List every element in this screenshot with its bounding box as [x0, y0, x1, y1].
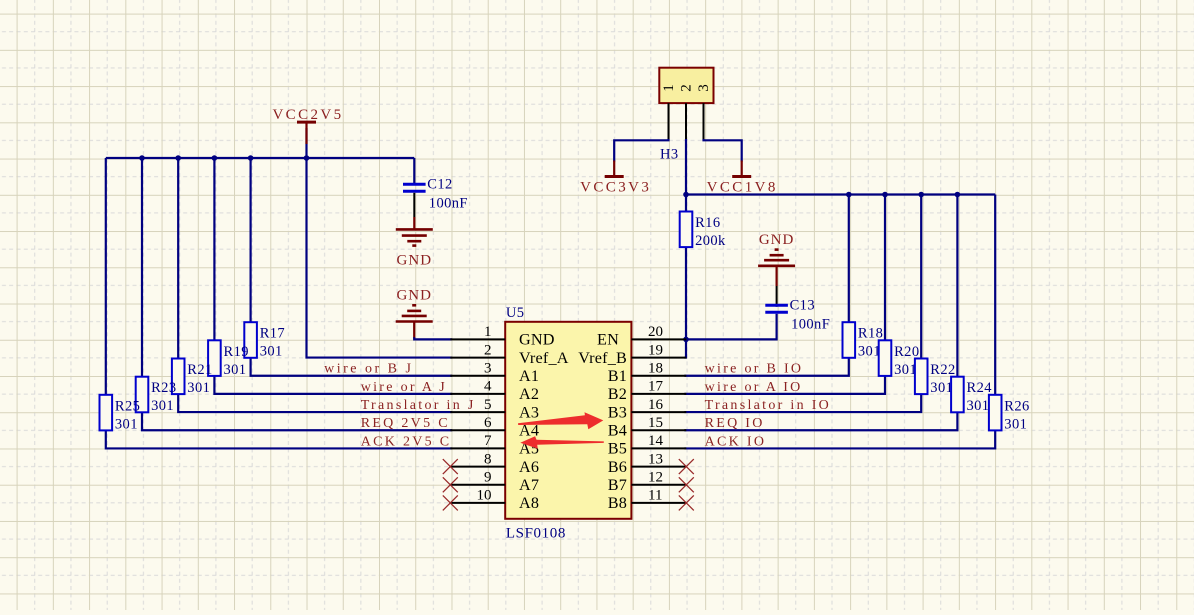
junction VCC2V5/bus [304, 155, 310, 161]
resistor R19 [208, 340, 249, 378]
pin 14 (B5) [608, 433, 687, 457]
svg-text:Vref_A: Vref_A [519, 349, 569, 367]
connector H3 [659, 68, 713, 103]
svg-text:Vref_B: Vref_B [578, 349, 627, 367]
svg-text:VCC3V3: VCC3V3 [580, 180, 651, 196]
resistor R24 [951, 377, 992, 415]
resistor R18 [843, 322, 884, 360]
pin 5 (A3) [450, 397, 539, 421]
pin 20 (EN) [597, 324, 686, 348]
pin 12 (B7) [608, 470, 687, 494]
svg-text:R23: R23 [151, 380, 176, 396]
pin 1 (GND) [450, 324, 554, 348]
svg-text:B2: B2 [608, 385, 627, 403]
svg-text:B4: B4 [608, 421, 627, 439]
svg-text:EN: EN [597, 331, 619, 349]
svg-text:A2: A2 [519, 385, 539, 403]
capacitor C13 [765, 297, 830, 332]
capacitor C12 [403, 176, 468, 211]
junction rail/R18 [846, 192, 852, 198]
svg-text:100nF: 100nF [429, 195, 468, 211]
svg-text:C13: C13 [790, 297, 815, 313]
svg-text:REQ 2V5 C: REQ 2V5 C [361, 416, 450, 431]
svg-text:12: 12 [648, 470, 663, 486]
pin 2 (Vref_A) [450, 342, 568, 366]
junction bus/R23 [139, 155, 145, 161]
resistor R23 [136, 377, 177, 415]
svg-text:7: 7 [484, 433, 492, 449]
wire R22 net pin 16 [684, 195, 921, 413]
svg-text:17: 17 [648, 379, 664, 395]
svg-text:wire or B J: wire or B J [324, 362, 413, 377]
svg-text:15: 15 [648, 415, 663, 431]
svg-text:13: 13 [648, 451, 663, 467]
ground GND to pin 1 [396, 288, 433, 322]
svg-text:6: 6 [484, 415, 492, 431]
svg-text:8: 8 [484, 451, 492, 467]
svg-text:B7: B7 [608, 476, 627, 494]
wire pull-up rail [686, 193, 995, 195]
svg-text:R22: R22 [930, 362, 955, 378]
wire GND to pin 1 [413, 322, 415, 339]
wire VCC2V5 bus [106, 157, 415, 159]
resistor R17 [244, 322, 285, 360]
power port VCC2V5 [272, 107, 343, 144]
pin 10 (A8) [450, 488, 539, 512]
svg-text:2: 2 [484, 342, 492, 358]
svg-text:LSF0108: LSF0108 [506, 526, 566, 542]
svg-text:R20: R20 [894, 344, 919, 360]
pin H3.2 [685, 103, 687, 140]
svg-text:R26: R26 [1004, 398, 1029, 414]
svg-text:GND: GND [759, 232, 795, 248]
svg-text:VCC2V5: VCC2V5 [272, 107, 343, 123]
wire EN to Vref_B pin 19 [684, 339, 686, 357]
wire net to pin 6 [142, 158, 452, 430]
op-amp U5 LSF0108 body [505, 322, 631, 519]
ground GND below C12 [396, 229, 433, 268]
wire R20 net pin 17 [684, 195, 885, 394]
pin 3 (A1) [450, 361, 539, 385]
svg-text:5: 5 [484, 397, 492, 413]
svg-text:4: 4 [484, 379, 492, 395]
svg-text:REQ IO: REQ IO [705, 416, 765, 431]
junction rail/R22 [918, 192, 924, 198]
svg-text:GND: GND [397, 252, 433, 268]
wire EN to C13 [686, 314, 777, 340]
svg-text:301: 301 [187, 380, 210, 396]
no-connect X pin 13 [679, 459, 694, 474]
no-connect X pin 10 [443, 495, 458, 510]
svg-text:B3: B3 [608, 403, 627, 421]
svg-text:VCC1V8: VCC1V8 [707, 180, 778, 196]
wire net to pin 3 [251, 158, 453, 376]
svg-text:3: 3 [484, 361, 492, 377]
svg-text:R19: R19 [224, 344, 249, 360]
svg-text:200k: 200k [695, 233, 726, 249]
svg-text:wire or A J: wire or A J [361, 380, 447, 395]
svg-text:B1: B1 [608, 367, 627, 385]
junction H3.2/VCC1V8 rail [683, 192, 689, 198]
svg-text:20: 20 [648, 324, 663, 340]
junction rail/R24 [955, 192, 961, 198]
svg-text:301: 301 [151, 398, 174, 414]
svg-text:301: 301 [967, 398, 990, 414]
svg-text:B6: B6 [608, 458, 627, 476]
svg-text:GND: GND [396, 288, 432, 304]
svg-text:100nF: 100nF [791, 316, 830, 332]
resistor R16 [680, 212, 726, 250]
pin 4 (A2) [450, 379, 539, 403]
junction bus/R17 [248, 155, 254, 161]
svg-text:R16: R16 [695, 215, 720, 231]
svg-text:A6: A6 [519, 458, 539, 476]
pin 7 (A5) [450, 433, 539, 457]
annotation arrow left (B5 to A5) [520, 436, 604, 449]
resistor R22 [915, 359, 956, 397]
svg-text:3: 3 [696, 84, 712, 92]
svg-text:wire or A IO: wire or A IO [705, 380, 803, 395]
no-connect X pin 8 [443, 459, 458, 474]
no-connect X pin 9 [443, 477, 458, 492]
svg-text:R25: R25 [115, 398, 140, 414]
wire net to pin 5 [178, 158, 452, 412]
svg-text:10: 10 [477, 488, 492, 504]
resistor R26 [989, 395, 1030, 433]
pin 13 (B6) [608, 451, 687, 475]
svg-text:B8: B8 [608, 494, 627, 512]
svg-text:H3: H3 [660, 147, 679, 163]
pin 11 (B8) [608, 488, 687, 512]
svg-text:GND: GND [519, 331, 555, 349]
svg-text:301: 301 [930, 380, 953, 396]
pin 16 (B3) [608, 397, 687, 421]
svg-text:1: 1 [484, 324, 492, 340]
no-connect X pin 12 [679, 477, 694, 492]
pin 8 (A6) [450, 451, 539, 475]
annotation arrow right (A4 to B3) [518, 412, 603, 429]
wire C13 to GND [776, 286, 778, 307]
pin 18 (B1) [608, 361, 687, 385]
wire H3.3 to VCC1V8 [704, 139, 742, 162]
ground GND above C13 [758, 232, 795, 266]
pin H3.3 [703, 103, 705, 140]
pin 9 (A7) [450, 470, 539, 494]
wire bus to C12 [413, 158, 415, 186]
svg-text:A7: A7 [519, 476, 539, 494]
svg-text:Translator in J: Translator in J [361, 398, 476, 413]
svg-text:301: 301 [224, 362, 247, 378]
svg-text:2: 2 [678, 84, 694, 92]
power port VCC3V3 [605, 161, 624, 177]
wire VCC2V5 to Vref_A pin 2 [307, 128, 453, 358]
svg-text:301: 301 [1004, 416, 1027, 432]
svg-text:R17: R17 [260, 326, 285, 342]
wire H3.1 to VCC3V3 [614, 139, 668, 162]
svg-text:C12: C12 [427, 176, 452, 192]
wire R18 net pin 18 [684, 195, 849, 376]
svg-text:Translator in IO: Translator in IO [705, 398, 832, 413]
junction bus/R19 [212, 155, 218, 161]
pin H3.1 [668, 103, 670, 140]
wire net to pin 4 [214, 158, 452, 394]
svg-text:U5: U5 [506, 305, 525, 321]
svg-text:ACK 2V5 C: ACK 2V5 C [361, 434, 452, 449]
svg-text:301: 301 [858, 344, 881, 360]
svg-text:R21: R21 [187, 362, 212, 378]
svg-text:A1: A1 [519, 367, 539, 385]
svg-text:A3: A3 [519, 403, 539, 421]
pin 19 (Vref_B) [578, 342, 686, 366]
svg-text:301: 301 [260, 344, 283, 360]
svg-text:9: 9 [484, 470, 492, 486]
svg-text:301: 301 [115, 416, 138, 432]
svg-text:A8: A8 [519, 494, 539, 512]
wire net to pin 7 [106, 158, 453, 448]
svg-text:16: 16 [648, 397, 664, 413]
wire R26 net pin 14 [684, 195, 995, 449]
pin 6 (A4) [450, 415, 539, 439]
pin 17 (B2) [608, 379, 687, 403]
pin 15 (B4) [608, 415, 687, 439]
svg-text:ACK IO: ACK IO [705, 434, 767, 449]
resistor R20 [879, 340, 920, 378]
svg-text:wire or B IO: wire or B IO [705, 362, 804, 377]
power port VCC1V8 [732, 161, 751, 177]
junction bus/R21 [175, 155, 181, 161]
svg-text:1: 1 [661, 84, 677, 92]
svg-text:301: 301 [894, 362, 917, 378]
svg-text:11: 11 [648, 488, 662, 504]
junction rail/R20 [882, 192, 888, 198]
wire H3.2 to EN rail [685, 139, 687, 339]
svg-text:18: 18 [648, 361, 663, 377]
wire R24 net pin 15 [684, 195, 957, 431]
resistor R25 [100, 395, 141, 433]
svg-text:14: 14 [648, 433, 664, 449]
svg-text:B5: B5 [608, 440, 627, 458]
wire C12 to GND [413, 193, 415, 217]
junction EN node [683, 337, 689, 343]
svg-text:19: 19 [648, 342, 663, 358]
no-connect X pin 11 [679, 495, 694, 510]
resistor R21 [172, 359, 213, 397]
